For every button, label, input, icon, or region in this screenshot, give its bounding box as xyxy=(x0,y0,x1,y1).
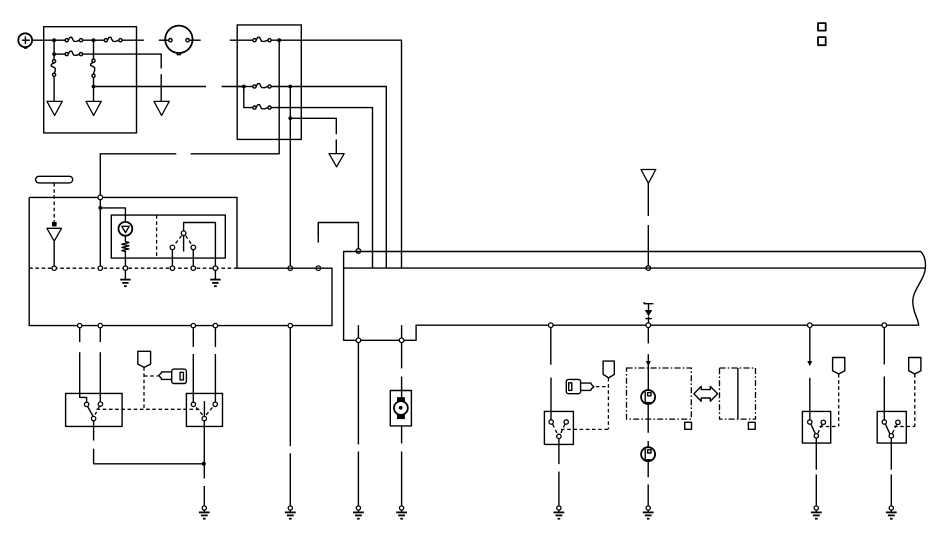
SW4 common wire xyxy=(815,438,817,470)
node B3 xyxy=(288,85,292,89)
fuse F7 xyxy=(253,84,271,89)
wire segment to arrow P4 xyxy=(335,140,337,154)
SW2 blade vertical xyxy=(203,401,205,416)
antenna page connector arrow P5 xyxy=(641,170,656,184)
page connector arrow P4 xyxy=(329,154,344,167)
page connector arrow P3 xyxy=(154,101,169,115)
ground G2 xyxy=(210,270,220,286)
switch S1 blade xyxy=(183,236,185,252)
switch S1 contact L xyxy=(170,245,175,250)
SW5 blade xyxy=(885,424,889,434)
diode D1 inside control unit xyxy=(644,302,653,323)
wire T290b down xyxy=(289,328,291,446)
wire row2 xyxy=(54,53,66,55)
terminal module bottom T290b xyxy=(288,323,292,327)
wire motor down xyxy=(401,426,403,444)
node A1 xyxy=(52,38,56,42)
node C1 xyxy=(98,206,102,210)
SW4 contact R xyxy=(821,420,825,424)
ground G5 xyxy=(353,506,364,519)
wire segment to connector C xyxy=(160,74,162,101)
switch box SW3 xyxy=(544,411,573,444)
wire drop A1 to row2 xyxy=(53,40,55,54)
dashed tag link down T3 xyxy=(838,374,840,427)
wire B4 to corner down xyxy=(290,118,336,134)
connector square Q1 xyxy=(685,422,692,429)
SW4 dashed throw xyxy=(818,425,823,434)
SW3 contact L xyxy=(549,420,553,424)
SW1 contact L xyxy=(84,402,88,406)
key symbol K1 xyxy=(159,369,187,383)
wire F7 to corner right xyxy=(271,87,386,269)
wire H2 down xyxy=(647,461,649,477)
fuse F6 xyxy=(253,37,271,42)
fuse F3 xyxy=(65,51,83,56)
SW2 common xyxy=(202,416,206,420)
wire T79 down xyxy=(79,328,81,342)
wire B1 down to row xyxy=(191,40,280,154)
wire T648 down xyxy=(647,328,649,344)
keyhole tag T4 xyxy=(909,358,921,375)
remote unit dash-dot box xyxy=(720,368,756,419)
terminal pocket T358 xyxy=(356,338,361,343)
terminal T125 xyxy=(123,266,127,270)
direction arrow on wire 810 xyxy=(807,361,812,366)
SW1 common wire down xyxy=(93,421,95,441)
horn H2 xyxy=(641,447,655,461)
control unit (bus) outline xyxy=(344,252,926,341)
dashed tag link down xyxy=(143,367,145,409)
SW5 contact L xyxy=(882,420,886,424)
SW1 dashed throw xyxy=(95,406,99,414)
page connector arrow P2 xyxy=(86,101,101,115)
SW3 common xyxy=(557,434,561,438)
switch box SW4 xyxy=(802,411,830,443)
wire to ground G4 xyxy=(203,486,205,505)
control unit divider line xyxy=(344,267,925,269)
wire T100c down xyxy=(99,328,101,342)
LED triangle xyxy=(47,228,62,241)
module box (security unit) outline xyxy=(29,197,332,325)
terminal pocket T402 xyxy=(399,338,404,343)
fuse box FB1 xyxy=(44,27,137,133)
fuse F5 vertical xyxy=(91,40,96,77)
SW5 dashed throw xyxy=(892,425,897,434)
LED square xyxy=(52,222,57,227)
wire LED to terminal xyxy=(53,241,55,266)
dashed link pill to diode xyxy=(53,183,55,222)
page connector arrow P1 xyxy=(47,101,62,115)
SW1 blade xyxy=(88,407,94,417)
terminal bus bottom T551 xyxy=(549,323,554,328)
resistor coil under lamp xyxy=(122,236,129,266)
ground G3 xyxy=(285,506,296,519)
module internal connector dashed line xyxy=(29,267,237,269)
switch S1 common xyxy=(181,231,186,236)
SW1 common xyxy=(91,416,95,420)
SW5 common xyxy=(889,434,893,438)
terminal on bus divider xyxy=(646,266,651,271)
wire F5 down through node A4 xyxy=(93,77,95,101)
terminal bus bottom T648 xyxy=(646,323,651,328)
wire to page connector P1 xyxy=(53,76,55,101)
wire C1 to lamp xyxy=(100,208,125,222)
ground G9 xyxy=(811,506,822,519)
node A4 xyxy=(92,85,96,89)
wire F6 to corner right xyxy=(271,40,401,268)
ground G4 xyxy=(199,506,210,519)
SW4 blade xyxy=(811,424,815,434)
dashed tag link down T4 xyxy=(914,374,916,427)
wire P5 to bus terminal xyxy=(647,225,649,266)
mechanical link dashed xyxy=(97,408,200,410)
terminal on control unit top xyxy=(356,249,361,254)
wire from top terminal into module xyxy=(99,200,101,266)
ground G10 xyxy=(886,506,897,519)
wire P5 down xyxy=(647,183,649,216)
door switch box SW1 xyxy=(66,393,123,426)
wire T193b down xyxy=(192,328,194,347)
wire A4 to fuse box 2 xyxy=(94,86,207,88)
wire main feed y40 xyxy=(54,39,66,41)
wire into fuse F7 xyxy=(237,86,253,88)
SW2 dashed throws xyxy=(196,407,203,415)
SW3 common wire xyxy=(558,439,560,465)
node B2 xyxy=(242,85,246,89)
switch box SW5 xyxy=(877,411,906,443)
terminal on module boundary T318 xyxy=(316,266,321,271)
dashed tag link down T2 xyxy=(607,378,609,430)
link wire module to control unit xyxy=(318,223,358,249)
terminal module bottom T100c xyxy=(98,323,102,327)
terminal module bottom T79 xyxy=(78,323,82,327)
mechanical link dashed SW5 xyxy=(894,426,915,428)
SW2 contact R xyxy=(213,402,217,406)
mechanical link dashed SW4 xyxy=(820,426,839,428)
SW5 common wire xyxy=(890,438,892,470)
fuse F8 xyxy=(253,105,271,110)
node D1 xyxy=(202,462,206,466)
wire row2 out to corner xyxy=(83,54,162,68)
legend square L2 xyxy=(818,37,826,45)
node B1 xyxy=(277,38,281,42)
door switch box SW2 xyxy=(186,393,222,426)
wire T884 down xyxy=(883,328,885,365)
wire B3 down xyxy=(289,87,291,267)
SW5 contact R xyxy=(896,420,900,424)
SW2 contact L xyxy=(191,402,195,406)
fuse F4 vertical xyxy=(51,54,56,76)
terminal T193 xyxy=(191,266,195,270)
terminal on module boundary T290 xyxy=(288,266,293,271)
ground G8 xyxy=(643,506,654,519)
keyhole tag T2 xyxy=(603,361,614,378)
wire segment to module xyxy=(100,154,176,195)
terminal T54 xyxy=(52,266,56,270)
direction arrow on wire xyxy=(646,361,651,366)
terminal module bottom T193b xyxy=(191,323,195,327)
pocket stub wires xyxy=(357,325,359,338)
ground G1 xyxy=(120,270,130,286)
terminal module top T100 xyxy=(98,195,103,200)
wire segment above terminal xyxy=(317,223,319,237)
wire H1 down xyxy=(647,404,649,433)
contact wires to terminals xyxy=(171,250,173,266)
inner dashed divider xyxy=(156,215,158,258)
ignition switch connector plug xyxy=(159,26,201,55)
indicator lamp xyxy=(119,222,133,236)
siren unit dash-dot box xyxy=(627,368,692,419)
double arrow symbol xyxy=(694,386,718,401)
node A3 xyxy=(52,52,56,56)
wire T215b down xyxy=(214,328,216,347)
node B4 xyxy=(288,116,292,120)
switch S1 frame inside module xyxy=(184,223,216,266)
dashed key link K2 xyxy=(596,386,609,388)
connector square Q2 xyxy=(748,422,755,429)
switch S1 dashed throws xyxy=(174,236,181,246)
wire pocket T402 down xyxy=(401,343,403,369)
keyhole tag T3 xyxy=(833,358,845,375)
keyhole tag T1 xyxy=(138,351,151,367)
legend square L1 xyxy=(818,23,826,31)
wire plug to fuse box 2 xyxy=(230,39,253,41)
wire F8 to corner right xyxy=(271,108,372,269)
fuse box FB2 xyxy=(237,25,301,139)
remote unit inner line xyxy=(737,368,739,419)
terminal T215 xyxy=(213,266,217,270)
SW4 contact L xyxy=(808,420,812,424)
switch S1 contact R xyxy=(191,245,196,250)
fuse F1 xyxy=(65,37,83,42)
wire F2 out to connector break xyxy=(122,39,144,41)
terminal T100b xyxy=(98,266,102,270)
wire pocket T358 down xyxy=(357,343,359,445)
terminal T172 xyxy=(170,266,174,270)
SW3 contact R xyxy=(564,420,568,424)
key symbol K2 xyxy=(566,379,594,393)
terminal module bottom T215b xyxy=(213,323,217,327)
ground G7 xyxy=(554,506,565,519)
SW4 common xyxy=(814,434,818,438)
battery B1 xyxy=(18,33,32,48)
horn H1 xyxy=(641,390,655,404)
node A2 xyxy=(92,38,96,42)
mechanical link dashed SW3 xyxy=(561,428,608,430)
wire F1 to node A2 xyxy=(83,39,105,41)
SW3 dashed throws xyxy=(553,424,558,434)
ground G6 xyxy=(396,506,407,519)
wire T551 down xyxy=(550,328,552,365)
SW2 common wire down xyxy=(203,421,205,479)
inner component box xyxy=(111,215,225,258)
SW1 contact R xyxy=(98,402,102,406)
terminal bus bottom T810 xyxy=(808,323,813,328)
fuse F2 xyxy=(104,37,122,42)
wire B2 down to fuse F8 xyxy=(244,87,253,108)
wire T810 down xyxy=(809,328,811,362)
terminal bus bottom T884 xyxy=(882,323,887,328)
wire battery to fuse box xyxy=(32,39,54,41)
dashed key link xyxy=(144,375,158,377)
pill component (antenna coil) xyxy=(36,176,73,183)
motor M1 xyxy=(390,391,411,426)
